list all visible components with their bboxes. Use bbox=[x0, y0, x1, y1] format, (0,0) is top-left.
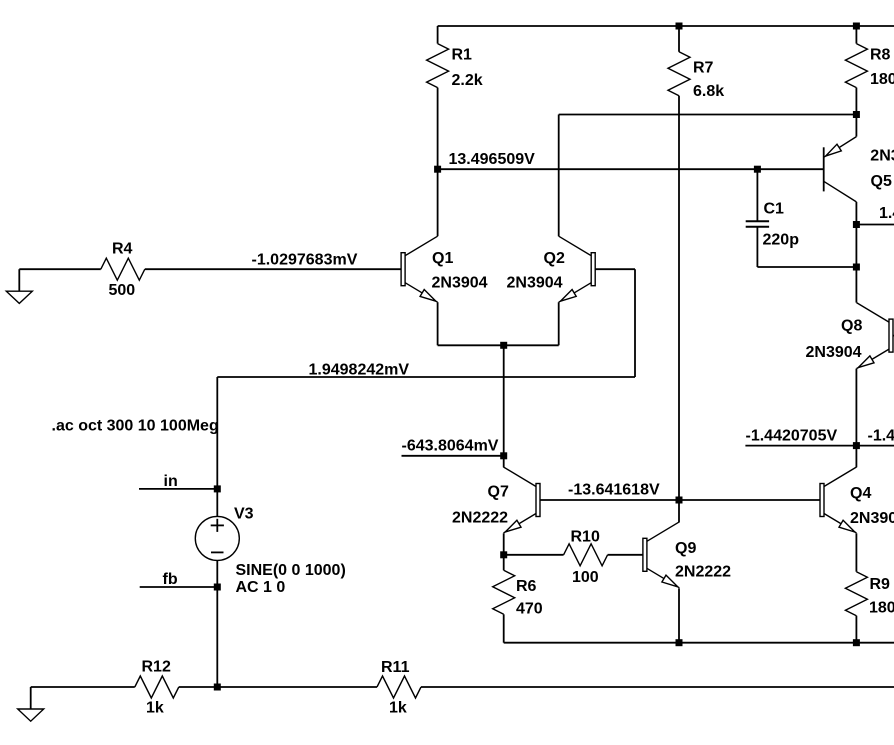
svg-text:2N2222: 2N2222 bbox=[675, 564, 731, 581]
voltage source V3 bbox=[195, 516, 239, 560]
transistor Q4 emitter lead bbox=[824, 514, 857, 534]
wire output stub right bbox=[856, 224, 894, 226]
wire C1 bottom to right column bbox=[757, 266, 856, 268]
wire input from R4 to Q1 base bbox=[145, 268, 401, 270]
svg-text:R8: R8 bbox=[870, 47, 891, 64]
transistor Q8 emitter lead bbox=[857, 349, 890, 369]
wire R6 node to R10 bbox=[504, 554, 564, 556]
svg-text:-643.8064mV: -643.8064mV bbox=[402, 438, 499, 455]
svg-text:1.4420705V: 1.4420705V bbox=[879, 205, 894, 222]
resistor R10 bbox=[564, 544, 608, 566]
wire Q5 emitter vertical bbox=[855, 115, 857, 137]
transistor Q7 base bar bbox=[536, 484, 540, 517]
svg-text:-1.0297683mV: -1.0297683mV bbox=[252, 252, 358, 269]
transistor Q9 base bar bbox=[643, 538, 647, 571]
transistor Q5 emitter arrow (PNP, points to base) bbox=[826, 144, 842, 156]
junction Q1/Q2 emitters bbox=[500, 342, 507, 349]
capacitor C1 bbox=[756, 169, 758, 221]
junction C1 bottom / right column bbox=[853, 264, 860, 271]
junction in node bbox=[214, 485, 221, 492]
svg-text:2N3904: 2N3904 bbox=[850, 510, 894, 527]
svg-text:180: 180 bbox=[870, 71, 894, 88]
svg-text:R11: R11 bbox=[381, 659, 410, 676]
wire Q2 collector to R8 node bbox=[559, 114, 857, 116]
wire node 13.496509V horizontal bbox=[438, 168, 824, 170]
svg-text:R6: R6 bbox=[516, 578, 537, 595]
wire Q4 emitter vertical bbox=[855, 533, 857, 571]
ground bottom bbox=[30, 687, 32, 709]
transistor Q1 base bar bbox=[401, 253, 405, 286]
wire feedback horizontal 1.9498242mV bbox=[217, 376, 635, 378]
svg-text:470: 470 bbox=[516, 601, 543, 618]
transistor Q8 collector lead bbox=[857, 303, 890, 323]
transistor Q9 emitter arrow bbox=[662, 575, 678, 587]
svg-text:Q5: Q5 bbox=[871, 173, 892, 190]
transistor Q5 collector lead bbox=[824, 181, 857, 202]
wire lower rail (emitters) bbox=[504, 642, 894, 644]
resistor R6 bbox=[503, 555, 505, 571]
svg-text:R10: R10 bbox=[571, 529, 600, 546]
wire V3 node to R11 bbox=[217, 686, 377, 688]
wire V3 bottom vertical bbox=[216, 560, 218, 687]
wire Q1 collector vertical bbox=[437, 169, 439, 236]
wire Q5 collector vertical bbox=[855, 202, 857, 225]
svg-text:V3: V3 bbox=[234, 506, 254, 523]
transistor Q5 base bar (PNP) bbox=[823, 147, 825, 191]
wire stub in bbox=[139, 488, 217, 490]
svg-text:R4: R4 bbox=[112, 241, 133, 258]
ground input side bbox=[18, 269, 20, 291]
resistor R11 bbox=[377, 676, 421, 698]
junction base row / R7 / Q9 collector bbox=[676, 497, 683, 504]
wire Q2 emitter vertical bbox=[558, 302, 560, 345]
wire top supply rail bbox=[438, 25, 894, 27]
svg-text:R1: R1 bbox=[452, 47, 473, 64]
junction bottom rail / V3 bbox=[214, 684, 221, 691]
junction top rail / R8 bbox=[853, 23, 860, 30]
wire Q9 emitter vertical bbox=[678, 588, 680, 642]
transistor Q2 base bar bbox=[591, 253, 595, 286]
svg-text:SINE(0 0 1000): SINE(0 0 1000) bbox=[236, 562, 346, 579]
svg-text:Q1: Q1 bbox=[432, 250, 453, 267]
wire Q4 collector vertical bbox=[855, 446, 857, 468]
svg-text:2N2222: 2N2222 bbox=[452, 510, 508, 527]
svg-text:2N3904: 2N3904 bbox=[432, 274, 488, 291]
svg-text:6.8k: 6.8k bbox=[693, 83, 724, 100]
wire Q7 collector vertical bbox=[503, 456, 505, 468]
wire emitter junction rail bbox=[438, 344, 559, 346]
svg-text:in: in bbox=[164, 473, 178, 490]
transistor Q2 emitter lead bbox=[559, 283, 592, 303]
wire tail current vertical bbox=[503, 345, 505, 456]
svg-text:R9: R9 bbox=[870, 576, 891, 593]
wire right column to Q8 collector bbox=[855, 267, 857, 303]
svg-text:2N3904: 2N3904 bbox=[806, 344, 862, 361]
wire V3 top vertical bbox=[216, 377, 218, 516]
transistor Q1 emitter arrow bbox=[420, 290, 436, 302]
svg-text:Q4: Q4 bbox=[850, 485, 871, 502]
transistor Q1 collector lead bbox=[405, 236, 438, 256]
resistor R8 bbox=[855, 26, 857, 44]
svg-text:2N3904: 2N3904 bbox=[507, 274, 563, 291]
wire Q7 emitter vertical bbox=[503, 533, 505, 555]
transistor Q8 emitter arrow bbox=[858, 356, 874, 368]
svg-text:Q7: Q7 bbox=[488, 484, 509, 501]
svg-text:Q8: Q8 bbox=[841, 318, 862, 335]
resistor R1 bbox=[437, 26, 439, 44]
wire Q9 collector vertical bbox=[678, 500, 680, 522]
junction Q5 collector output node bbox=[853, 221, 860, 228]
svg-text:R7: R7 bbox=[693, 60, 714, 77]
transistor Q8 base bar bbox=[889, 319, 893, 352]
svg-text:Q2: Q2 bbox=[544, 250, 565, 267]
transistor Q9 emitter lead bbox=[647, 568, 680, 588]
wire Q7 base row -13.641618V bbox=[540, 499, 820, 501]
transistor Q4 collector lead bbox=[824, 467, 857, 487]
svg-text:2N3906: 2N3906 bbox=[870, 148, 894, 165]
transistor Q9 collector lead bbox=[647, 522, 680, 542]
wire R12 to V3 node bbox=[179, 686, 218, 688]
svg-text:1k: 1k bbox=[389, 700, 407, 717]
svg-text:-13.641618V: -13.641618V bbox=[568, 482, 660, 499]
wire feedback vertical to Q2 base bbox=[634, 269, 636, 377]
transistor Q5 emitter lead bbox=[824, 137, 857, 158]
svg-text:220p: 220p bbox=[763, 232, 800, 249]
svg-text:100: 100 bbox=[572, 569, 599, 586]
transistor Q1 emitter lead bbox=[405, 283, 438, 303]
svg-text:fb: fb bbox=[163, 571, 178, 588]
junction lower rail / R9 bbox=[853, 639, 860, 646]
svg-text:C1: C1 bbox=[764, 201, 785, 218]
svg-text:2.2k: 2.2k bbox=[452, 72, 483, 89]
resistor R7 bbox=[678, 26, 680, 52]
svg-text:-1.4420705V: -1.4420705V bbox=[868, 428, 894, 445]
resistor R9 bbox=[845, 572, 867, 616]
transistor Q4 emitter arrow bbox=[839, 520, 855, 532]
wire node -1.4420705V stub right bbox=[856, 445, 894, 447]
svg-text:180: 180 bbox=[869, 600, 894, 617]
svg-text:500: 500 bbox=[109, 282, 136, 299]
wire R10 to Q9 base bbox=[608, 554, 643, 556]
transistor Q2 collector lead bbox=[559, 236, 592, 256]
junction node -1.4420705V bbox=[853, 442, 860, 449]
transistor Q7 emitter arrow bbox=[505, 520, 521, 532]
wire bottom rail right bbox=[421, 686, 894, 688]
resistor R12 bbox=[135, 676, 179, 698]
svg-text:-1.4420705V: -1.4420705V bbox=[746, 428, 838, 445]
junction R8 / Q5 emitter node bbox=[853, 111, 860, 118]
junction fb node bbox=[214, 584, 221, 591]
transistor Q7 emitter lead bbox=[504, 514, 537, 534]
svg-text:R12: R12 bbox=[142, 659, 171, 676]
svg-text:1k: 1k bbox=[146, 700, 164, 717]
wire Q1 emitter vertical bbox=[437, 302, 439, 345]
wire right column 224.5 to C1 bottom node bbox=[855, 225, 857, 268]
wire stub node -643.8064mV bbox=[402, 455, 504, 457]
transistor Q7 collector lead bbox=[504, 467, 537, 487]
wire Q2 base to feedback column bbox=[595, 268, 635, 270]
junction R1 / Q1 collector node bbox=[434, 166, 441, 173]
svg-text:AC 1 0: AC 1 0 bbox=[236, 579, 286, 596]
junction tail / Q7 collector bbox=[500, 452, 507, 459]
junction lower rail / Q9 emitter bbox=[676, 639, 683, 646]
svg-text:Q9: Q9 bbox=[675, 540, 696, 557]
resistor R4 bbox=[19, 268, 101, 270]
wire node -1.4420705V stub left bbox=[745, 445, 856, 447]
wire stub fb bbox=[140, 586, 218, 588]
wire Q8 base stub bbox=[893, 335, 894, 337]
junction C1 top bbox=[754, 166, 761, 173]
junction top rail / R7 bbox=[676, 23, 683, 30]
junction R6 top / Q7 emitter bbox=[500, 551, 507, 558]
svg-text:.ac oct 300 10 100Meg: .ac oct 300 10 100Meg bbox=[52, 418, 219, 435]
svg-text:1.9498242mV: 1.9498242mV bbox=[309, 362, 410, 379]
wire bottom rail left bbox=[31, 686, 135, 688]
wire Q8 emitter vertical bbox=[855, 369, 857, 446]
svg-text:13.496509V: 13.496509V bbox=[449, 151, 536, 168]
transistor Q2 emitter arrow bbox=[560, 290, 576, 302]
transistor Q4 base bar bbox=[820, 484, 824, 517]
